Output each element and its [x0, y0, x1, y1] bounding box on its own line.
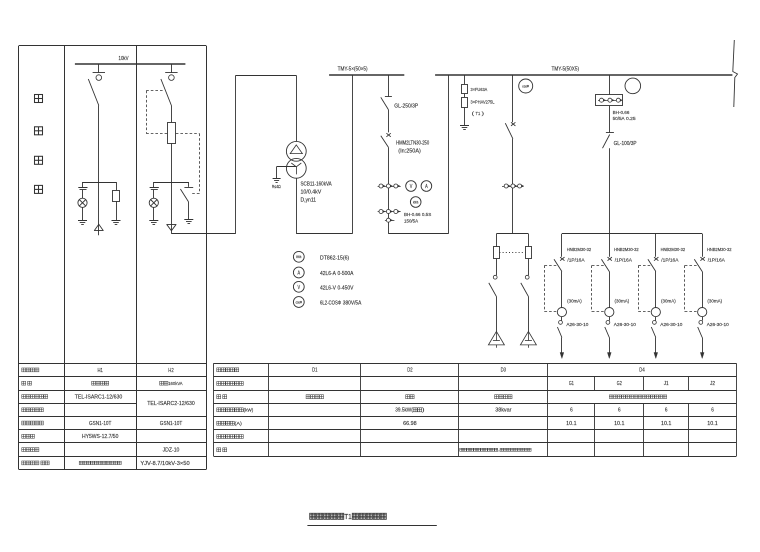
- wire: fuse link: [464, 94, 466, 98]
- svg-text:H1: H1: [98, 368, 103, 374]
- wire: contactor2 to capacitor: [528, 296, 530, 331]
- legend energy meter kWh: [293, 251, 304, 262]
- svg-text:/1P/16A: /1P/16A: [615, 257, 633, 263]
- svg-text:GL-250/3P: GL-250/3P: [394, 103, 418, 109]
- svg-text:cosΦ: cosΦ: [296, 300, 303, 304]
- svg-text:HNB2M30-32: HNB2M30-32: [661, 247, 686, 253]
- wire: busbar drop to QS1 (H1 incoming isolator): [98, 64, 100, 73]
- wire: busbar1 drop to QF1: [388, 75, 390, 97]
- fuse FU (H2 HV fuse): [168, 123, 176, 144]
- wire: QF4 down to branch header: [609, 148, 611, 234]
- svg-text:50/5A: 50/5A: [613, 116, 626, 122]
- svg-text:GSN1-10T: GSN1-10T: [89, 421, 112, 427]
- wire: capacitor leg 1 drop: [496, 234, 498, 247]
- svg-text:10.1: 10.1: [661, 421, 672, 427]
- svg-text:10.1: 10.1: [707, 421, 718, 427]
- wire: H2 fuse to tee: [171, 143, 173, 182]
- svg-text:6: 6: [570, 408, 573, 414]
- contactor KM2 contact: [525, 275, 529, 279]
- svg-text:GSN1-10T: GSN1-10T: [160, 421, 183, 427]
- svg-text:150/5A: 150/5A: [404, 219, 419, 224]
- svg-text:D3: D3: [501, 368, 506, 374]
- wire: breaker to RCD J1: [655, 272, 657, 308]
- svg-text:G2: G2: [617, 381, 622, 387]
- wire: busbar2 drop to fuse branch: [464, 75, 466, 84]
- energy meter kWh: [410, 197, 421, 208]
- svg-text:,: ,: [498, 448, 500, 452]
- wire: branch G1 tail: [561, 338, 563, 353]
- meter circle (spare) top right: [625, 78, 641, 94]
- vertical label: primary wiring (一次结线): [35, 95, 43, 103]
- svg-text:10/0.4kV: 10/0.4kV: [301, 189, 322, 195]
- wire: H2 tee horizontal: [154, 182, 189, 184]
- ground (earthing switch): [184, 219, 193, 221]
- svg-text:6: 6: [665, 408, 668, 414]
- svg-text:T1: T1: [475, 111, 480, 117]
- wire: branch G1 drop: [561, 234, 563, 257]
- dashed interlock box around H2 switch-fuse: [146, 90, 163, 92]
- svg-text:0.5S: 0.5S: [422, 212, 431, 217]
- wire: branch J2 tail: [702, 338, 704, 353]
- svg-text:(30mA): (30mA): [661, 298, 676, 304]
- contactor A26-30-10 J1: [653, 321, 657, 325]
- wire: branch G2 drop: [609, 234, 611, 257]
- svg-text:10.1: 10.1: [614, 421, 625, 427]
- svg-text:38kvar: 38kvar: [495, 408, 511, 414]
- svg-text:kWh: kWh: [413, 200, 418, 204]
- svg-text:BH-0.66: BH-0.66: [613, 110, 630, 116]
- wire: fuse to contactor 2: [528, 259, 530, 276]
- capacitor bank C1: [488, 331, 504, 345]
- legend ammeter: [293, 267, 304, 278]
- svg-text:J2: J2: [710, 381, 715, 387]
- wire: breaker to RCD J2: [702, 272, 704, 308]
- svg-text:6: 6: [618, 408, 621, 414]
- isolator QS1 (H1 incoming isolator) contact circle: [96, 75, 102, 81]
- svg-text:6L2-COSΦ: 6L2-COSΦ: [320, 301, 341, 307]
- fuse FU-C2: [526, 247, 532, 259]
- svg-text:HNB2M30-32: HNB2M30-32: [567, 247, 592, 253]
- H2 cable terminal (outgoing cable head): [167, 224, 177, 231]
- svg-text:H2: H2: [168, 368, 173, 374]
- svg-text:/1P/16A: /1P/16A: [661, 257, 679, 263]
- svg-text:cosΦ: cosΦ: [522, 84, 529, 88]
- breaker QF-G2 HNB2M30-32: [608, 257, 612, 261]
- title underline: [307, 525, 436, 527]
- wire: RCD to contactor J2: [702, 317, 704, 321]
- svg-text:(A): (A): [235, 421, 243, 427]
- wire: capacitor leg 2 drop: [528, 234, 530, 247]
- wire: H1 tee horizontal: [83, 182, 117, 184]
- CT single (third) on D2 feeder: [385, 220, 395, 222]
- CT group on capacitor feeder: [502, 186, 524, 188]
- LV table row labels: [217, 368, 221, 372]
- dashed RCD enclosure J2: [685, 265, 699, 267]
- svg-text:J1: J1: [664, 381, 669, 387]
- contactor A26-30-10 G2: [606, 321, 610, 325]
- svg-text:(30mA): (30mA): [707, 298, 722, 304]
- wire: D2 feeder jog to busbar2 riser: [388, 233, 448, 235]
- svg-text:TMY-5×(50×5): TMY-5×(50×5): [338, 67, 368, 73]
- H2 live-display capacitor: [153, 182, 155, 187]
- breaker QF3 (capacitor feeder): [511, 122, 515, 126]
- wire: QF3 down: [512, 139, 514, 234]
- svg-text:(30mA): (30mA): [615, 298, 630, 304]
- capacitor bank C2: [520, 331, 536, 345]
- transformer T1 primary winding (delta): [286, 141, 306, 161]
- isolator QS1 (H1 incoming isolator) blade: [88, 79, 99, 106]
- svg-text:(: (: [472, 111, 475, 117]
- earthing switch QSE (H2): [188, 182, 190, 187]
- svg-text:JDZ-10: JDZ-10: [163, 448, 180, 454]
- svg-text:/1P/16A: /1P/16A: [708, 257, 726, 263]
- CT box BH-0.66 50/5A: [596, 95, 623, 106]
- svg-text:TEL-ISARC2-12/630: TEL-ISARC2-12/630: [147, 401, 195, 407]
- arrow: outgoing circuit J2: [700, 353, 704, 359]
- svg-text:BH-0.66: BH-0.66: [404, 212, 421, 217]
- RCD (residual current device) J1: [651, 308, 660, 317]
- svg-text:TMY-5(50X5): TMY-5(50X5): [552, 67, 580, 73]
- breaker QF4 GL-100/3P: [606, 132, 614, 134]
- H1 cable terminal (incoming cable head): [94, 224, 103, 231]
- dashed RCD enclosure G1: [545, 265, 559, 267]
- surge arrester 3xPHAV275L: [462, 98, 468, 108]
- svg-text:A: A: [298, 270, 301, 276]
- svg-text:D1: D1: [312, 368, 317, 374]
- svg-text:HNB2M30-32: HNB2M30-32: [614, 247, 639, 253]
- wire: branch J1 drop: [655, 234, 657, 257]
- isolator QS2 (H2 isolator) fixed contact bar: [165, 72, 177, 74]
- svg-text:): ): [422, 408, 425, 414]
- wire: H2 lamp to ground: [153, 207, 155, 220]
- wire: breaker to RCD G2: [609, 272, 611, 308]
- breaker QF-G1 HNB2M30-32: [560, 257, 564, 261]
- svg-text:GL-100/3P: GL-100/3P: [614, 141, 638, 147]
- svg-text:V: V: [410, 184, 413, 190]
- HV switchgear cabinet outline (left box frame): [19, 45, 207, 47]
- fuse FU-C1: [494, 247, 500, 259]
- H1 indicator lamp: [82, 190, 84, 199]
- wire: CT box to QF4: [609, 106, 611, 133]
- node: 10kV busbar: [75, 63, 185, 65]
- svg-text:): ): [482, 111, 485, 117]
- svg-text:0-450V: 0-450V: [337, 285, 353, 291]
- svg-text:(In:250A): (In:250A): [398, 149, 421, 155]
- power-factor meter cos-phi: [519, 79, 533, 93]
- wire: contactor1 to capacitor: [496, 296, 498, 331]
- H1 resistor (voltage sensor): [116, 182, 118, 190]
- wire: RCD to contactor J1: [655, 317, 657, 321]
- legend cos-phi meter: [293, 297, 304, 308]
- svg-text:/1P/16A: /1P/16A: [567, 257, 585, 263]
- svg-text:G1: G1: [569, 381, 574, 387]
- svg-text:A: A: [425, 184, 428, 190]
- H2 indicator lamp: [153, 190, 155, 199]
- contactor KM1 contact: [493, 275, 497, 279]
- svg-text:10.1: 10.1: [566, 421, 577, 427]
- svg-text:10kV: 10kV: [119, 56, 130, 62]
- wire: RCD to contactor G1: [561, 317, 563, 321]
- wire: branch G2 tail: [609, 338, 611, 353]
- wire: RCD to contactor G2: [609, 317, 611, 321]
- isolator QS2 (H2 isolator) contact circle: [169, 75, 175, 81]
- contactor A26-30-10 J2: [699, 321, 703, 325]
- CT group 1 (voltage metering) on D2 feeder: [378, 186, 401, 188]
- wire: H2 to transformer loop: [171, 233, 235, 235]
- breaker QF1 GL-250/3P: [385, 96, 392, 98]
- wire: H2 blade to fuse: [171, 106, 173, 123]
- drawing break mark at busbar end: [733, 40, 738, 107]
- wire: transformer secondary down: [296, 178, 298, 234]
- H1 live-display capacitor: [82, 182, 84, 187]
- HV parameter table grid (left): [19, 363, 207, 365]
- svg-text:YJV-8.7/10kV-3×50: YJV-8.7/10kV-3×50: [140, 461, 189, 467]
- wire: QF2 down to bottom jog: [388, 147, 390, 234]
- svg-text:6: 6: [711, 408, 714, 414]
- wire: H1 isolator to bottom tee: [98, 106, 100, 236]
- svg-text:380V/5A: 380V/5A: [343, 301, 362, 307]
- ground (H2 lamp): [149, 220, 158, 222]
- breaker QF-J2 HNB2M30-32: [700, 257, 704, 261]
- svg-text:A26-30-10: A26-30-10: [660, 322, 682, 328]
- transformer T1 secondary winding (wye): [286, 158, 306, 178]
- dotted gang link between capacitor fuses: [499, 252, 525, 254]
- wire: branch J1 tail: [655, 338, 657, 353]
- isolator QS2 (H2 isolator) blade: [161, 79, 172, 106]
- svg-text:0.25: 0.25: [626, 116, 636, 122]
- drawing title: [310, 513, 316, 519]
- svg-text:D,yn11: D,yn11: [301, 197, 317, 203]
- svg-text:HNB2M30-32: HNB2M30-32: [707, 247, 732, 253]
- svg-text:kWh: kWh: [296, 255, 301, 259]
- svg-text:3×PHAV275L: 3×PHAV275L: [471, 100, 495, 106]
- svg-text:R≤4Ω: R≤4Ω: [272, 184, 281, 189]
- wire: capacitor bank tee: [496, 233, 528, 235]
- svg-text:HMM2LTN30-250: HMM2LTN30-250: [396, 141, 429, 147]
- svg-text:66.98: 66.98: [403, 421, 417, 427]
- svg-text:A26-30-10: A26-30-10: [614, 322, 636, 328]
- wire: fuse to contactor 1: [496, 259, 498, 276]
- ammeter A: [421, 181, 432, 192]
- legend voltmeter: [293, 281, 304, 292]
- ground (H1 lamp): [78, 220, 87, 222]
- svg-text:A26-30-10: A26-30-10: [566, 322, 588, 328]
- wire: outgoing branch header: [562, 233, 702, 235]
- wire: breaker to RCD G1: [561, 272, 563, 308]
- svg-text:T1: T1: [344, 512, 352, 521]
- svg-text:SCB11-160kVA: SCB11-160kVA: [301, 181, 333, 187]
- svg-text:TEL-ISARC1-12/630: TEL-ISARC1-12/630: [75, 394, 123, 400]
- wire: busbar2 drop main feeder: [609, 75, 611, 95]
- fuse 3xFU63A: [462, 85, 468, 94]
- ground (transformer neutral): [273, 178, 281, 180]
- wire: H1 lamp to ground: [82, 207, 84, 220]
- svg-text:0-500A: 0-500A: [337, 271, 353, 277]
- svg-text:A26-30-10: A26-30-10: [707, 322, 729, 328]
- RCD (residual current device) G2: [605, 308, 614, 317]
- svg-text:DT862-15(6): DT862-15(6): [320, 255, 349, 261]
- HV table row labels: [22, 368, 26, 372]
- svg-text:160kVA: 160kVA: [168, 381, 183, 387]
- svg-text:42L6-V: 42L6-V: [320, 285, 336, 291]
- wire: LV link to riser: [296, 233, 352, 235]
- svg-text:(kW): (kW): [244, 407, 254, 413]
- arrow: outgoing circuit G1: [560, 353, 564, 359]
- node: LV busbar section 1 TMY-5x(50x5): [329, 74, 404, 76]
- breaker QF-J1 HNB2M30-32: [654, 257, 658, 261]
- CT group 2 (energy metering) on D2 feeder: [378, 211, 401, 213]
- dashed trip linkage to earthing switch: [199, 134, 201, 194]
- wire: transformer neutral to ground: [277, 166, 297, 168]
- wire: H1 resistor to ground: [116, 201, 118, 221]
- dashed RCD enclosure G2: [592, 265, 606, 267]
- svg-text:HY5WS-12.7/50: HY5WS-12.7/50: [82, 434, 118, 440]
- wire: to ground: [464, 108, 466, 126]
- svg-text:(30mA): (30mA): [567, 298, 582, 304]
- isolator QS1 (H1 incoming isolator) fixed contact bar: [93, 72, 105, 74]
- wire: branch J2 drop: [702, 234, 704, 257]
- wire: H2 main down: [171, 182, 173, 234]
- svg-text:3×FU63A: 3×FU63A: [471, 87, 488, 93]
- contactor A26-30-10 G1: [559, 321, 563, 325]
- svg-text:D2: D2: [407, 368, 412, 374]
- node: LV busbar section 2 TMY-5(50X5): [435, 74, 732, 76]
- RCD (residual current device) J2: [698, 308, 707, 317]
- wire: busbar drop to QS2 (H2 isolator): [171, 64, 173, 73]
- arrow: outgoing circuit J1: [654, 353, 658, 359]
- svg-text:V: V: [298, 285, 301, 291]
- breaker QF2 HMM2LTN30-250: [386, 133, 390, 137]
- wire: QF1 to QF2: [388, 110, 390, 133]
- LV distribution table grid: [214, 363, 737, 365]
- arrow: outgoing circuit G2: [607, 353, 611, 359]
- wire: earthing switch to ground: [188, 202, 190, 220]
- RCD (residual current device) G1: [557, 308, 566, 317]
- voltmeter V: [406, 181, 417, 192]
- wire: busbar2 drop to capacitor feeder: [512, 75, 514, 122]
- svg-text:D4: D4: [639, 368, 644, 374]
- dashed RCD enclosure J1: [638, 265, 652, 267]
- ground (H1 resistor): [112, 220, 121, 222]
- ground (surge arrester): [460, 125, 469, 127]
- svg-text:42L6-A: 42L6-A: [320, 271, 336, 277]
- svg-text:39.5kW(: 39.5kW(: [395, 408, 413, 414]
